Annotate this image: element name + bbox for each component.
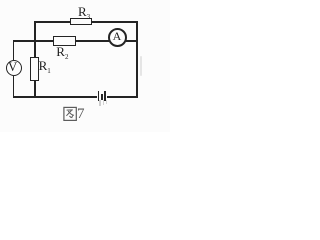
label R2 [56,45,68,61]
voltmeter U-V [6,60,22,76]
faint scan smudge below battery plate 2 [103,100,105,105]
battery BT1 plate short middle [101,94,103,100]
resistor R1 [30,57,39,81]
resistor R3 [70,18,92,25]
resistor R2 [53,36,76,46]
wire left branch vertical upper [13,40,15,61]
caption figure 7 digit [77,107,85,122]
wire middle-left segment [13,40,53,42]
faint scan smudge right edge [140,56,142,76]
faint scan smudge below battery plate 3 [106,100,107,105]
wire left branch vertical lower [13,76,15,97]
wire inner vertical upper [34,21,36,58]
caption figure 7 glyph tu [63,106,78,122]
ammeter U-A [108,28,127,47]
wire top-left segment [34,21,71,23]
faint scan smudge below battery plate 1 [99,100,100,106]
battery BT1 plate long right [104,91,106,101]
wire R2 to ammeter [75,40,109,42]
wire inner vertical lower [34,81,36,98]
wire ammeter to right vertical [126,40,137,42]
wire bottom-left segment [13,96,98,98]
label R3 [78,5,90,21]
wire top-right segment [92,21,139,23]
wire right vertical [136,21,138,98]
battery BT1 plate long left [98,91,100,102]
label R1 [39,59,51,75]
wire bottom-right segment [107,96,138,98]
